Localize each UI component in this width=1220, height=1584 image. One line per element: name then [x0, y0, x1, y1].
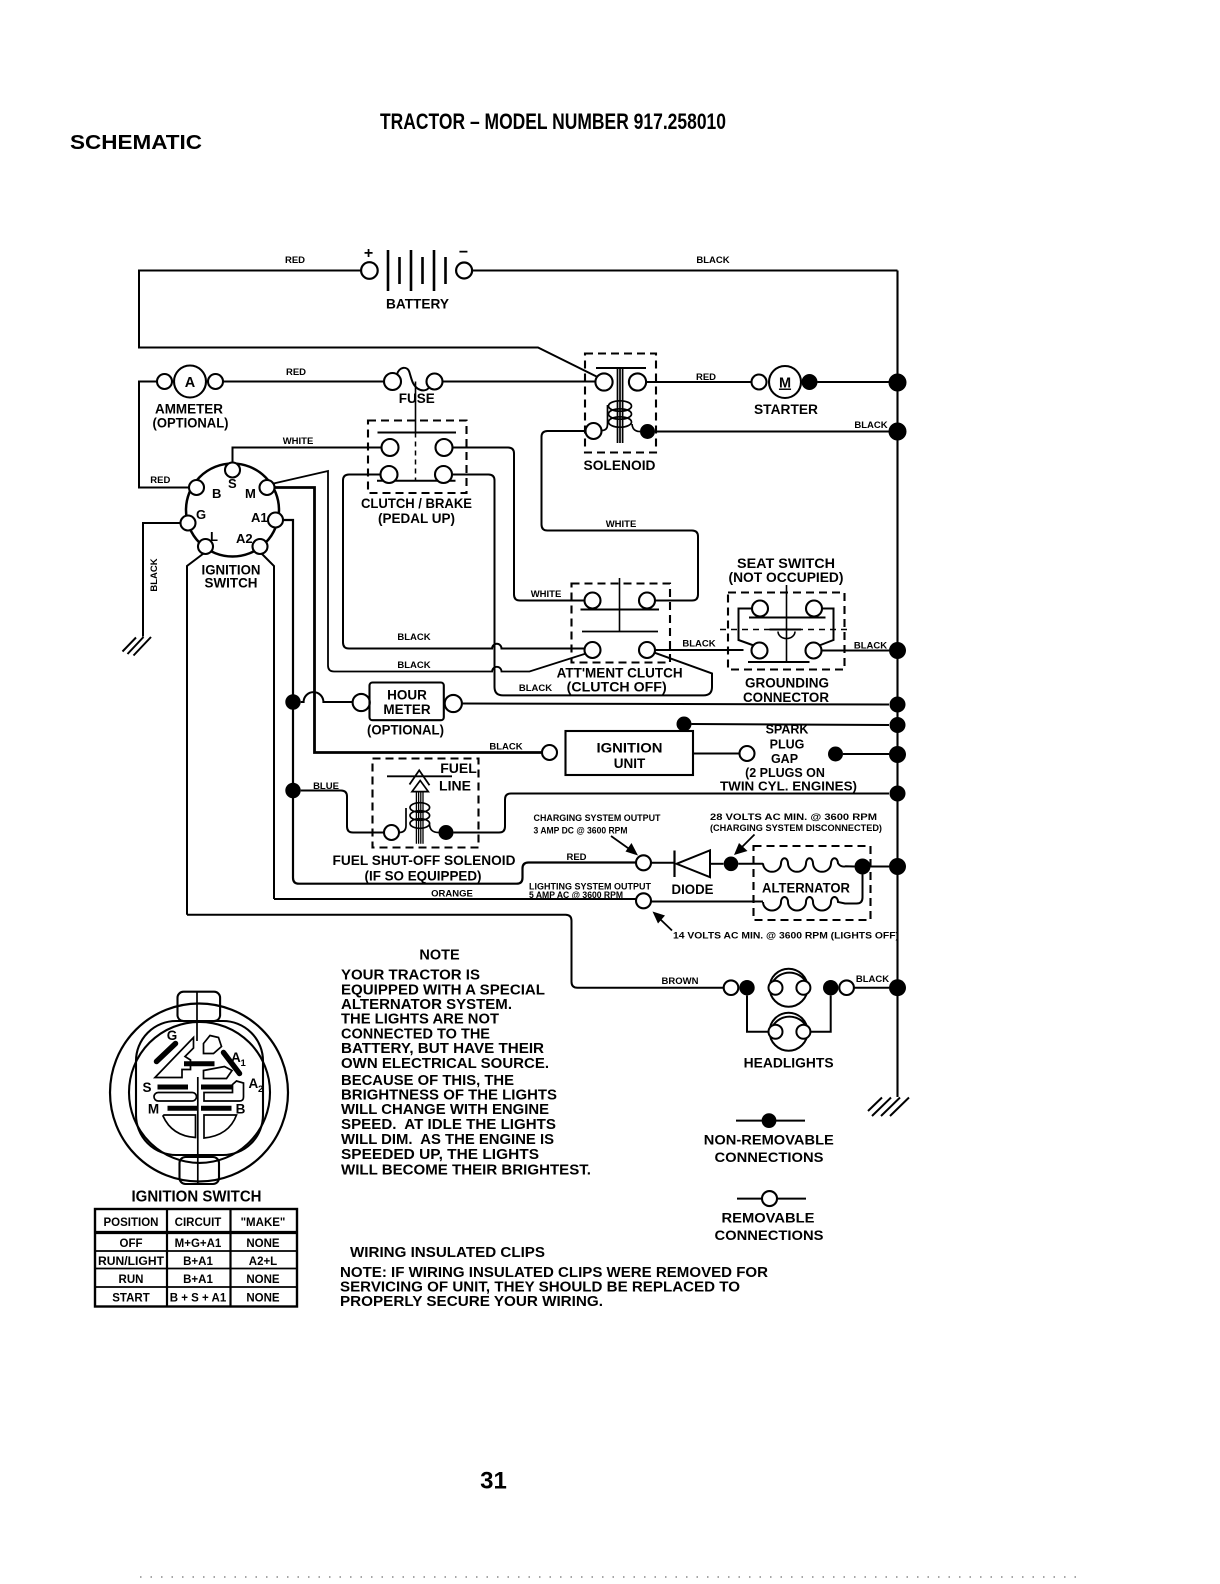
wire battery negative to right bus	[473, 270, 898, 272]
svg-text:M+G+A1: M+G+A1	[175, 1238, 222, 1250]
ignition switch label enclosure	[187, 554, 274, 915]
diode	[651, 850, 724, 897]
svg-text:(OPTIONAL): (OPTIONAL)	[153, 416, 229, 431]
legend non-removable connection	[736, 1120, 805, 1122]
svg-text:BLACK: BLACK	[856, 974, 889, 985]
svg-text:RED: RED	[696, 372, 716, 383]
svg-text:B + S + A1: B + S + A1	[170, 1293, 227, 1305]
svg-text:(NOT OCCUPIED): (NOT OCCUPIED)	[729, 570, 844, 585]
wire starter to bus	[818, 381, 890, 383]
svg-text:(CLUTCH OFF): (CLUTCH OFF)	[567, 679, 667, 695]
svg-text:WIRING INSULATED CLIPS: WIRING INSULATED CLIPS	[350, 1245, 545, 1261]
svg-text:RUN/LIGHT: RUN/LIGHT	[98, 1256, 164, 1268]
svg-text:HOUR: HOUR	[387, 688, 427, 703]
svg-text:RUN: RUN	[119, 1274, 144, 1286]
connector lighting output	[636, 893, 651, 908]
svg-text:DIODE: DIODE	[672, 882, 714, 897]
svg-text:CONNECTIONS: CONNECTIONS	[715, 1228, 824, 1243]
svg-text:ALTERNATOR: ALTERNATOR	[762, 881, 850, 896]
svg-text:IGNITION: IGNITION	[597, 741, 663, 756]
svg-text:WILL DIM. AS THE ENGINE IS: WILL DIM. AS THE ENGINE IS	[341, 1132, 554, 1148]
svg-text:(CHARGING SYSTEM DISCONNECTED): (CHARGING SYSTEM DISCONNECTED)	[710, 823, 882, 833]
svg-text:BLACK: BLACK	[854, 420, 887, 431]
svg-text:BATTERY: BATTERY	[386, 296, 450, 312]
junction starter-bus	[889, 374, 907, 392]
headlights connector right	[839, 980, 854, 995]
svg-text:A: A	[231, 1050, 241, 1065]
svg-text:L: L	[210, 529, 218, 544]
junction spark gap bus	[889, 746, 906, 763]
right bus vertical	[896, 271, 898, 1098]
svg-text:B: B	[236, 1102, 246, 1117]
hour meter (optional)	[353, 683, 462, 738]
seat switch (not occupied)	[720, 556, 852, 670]
svg-text:M: M	[779, 376, 791, 392]
headlight lamp 1	[769, 969, 811, 1007]
svg-text:OFF: OFF	[120, 1238, 143, 1250]
svg-text:PROPERLY SECURE YOUR WIRING.: PROPERLY SECURE YOUR WIRING.	[340, 1294, 603, 1310]
junction blue wire	[285, 783, 300, 798]
wire blue to fuel solenoid	[301, 791, 384, 833]
clutch brake switch (pedal up)	[361, 382, 472, 527]
svg-text:BLACK: BLACK	[149, 558, 160, 591]
wire M branch to attment clutch	[274, 471, 587, 672]
wire G to ground	[143, 523, 181, 637]
svg-text:NONE: NONE	[246, 1238, 280, 1250]
ignition unit top stub and dot	[683, 725, 685, 732]
svg-text:S: S	[228, 476, 237, 491]
svg-text:WHITE: WHITE	[283, 436, 314, 447]
svg-text:WILL CHANGE WITH ENGINE: WILL CHANGE WITH ENGINE	[341, 1102, 549, 1118]
fuse F1	[384, 368, 443, 406]
ignition switch body	[181, 463, 284, 557]
svg-text:POSITION: POSITION	[104, 1217, 159, 1229]
wire seat switch to bus	[822, 650, 890, 652]
wire L brown to headlights	[187, 915, 724, 988]
svg-text:SPEED. AT IDLE THE LIGHTS: SPEED. AT IDLE THE LIGHTS	[341, 1117, 556, 1133]
svg-text:RED: RED	[150, 475, 170, 486]
battery	[361, 244, 472, 312]
connector pin labels	[142, 1028, 245, 1117]
wire fuel solenoid output to bus	[454, 794, 890, 833]
svg-text:S: S	[142, 1080, 151, 1095]
svg-text:CHARGING SYSTEM OUTPUT: CHARGING SYSTEM OUTPUT	[534, 813, 661, 824]
svg-text:RED: RED	[285, 255, 305, 266]
wire S to clutch brake	[233, 448, 382, 463]
svg-text:B: B	[212, 486, 221, 501]
svg-text:START: START	[112, 1293, 149, 1305]
svg-text:BATTERY, BUT HAVE THEIR: BATTERY, BUT HAVE THEIR	[341, 1041, 545, 1057]
svg-text:ORANGE: ORANGE	[431, 889, 473, 900]
junction seat-bus	[889, 642, 906, 659]
wire lighting to alternator	[651, 901, 763, 903]
wire hour meter to bus	[462, 704, 889, 705]
svg-text:BLACK: BLACK	[696, 255, 729, 266]
svg-text:YOUR TRACTOR IS: YOUR TRACTOR IS	[341, 968, 480, 984]
wire diode to alternator	[738, 863, 763, 865]
bottom perforation dots	[140, 1576, 1085, 1578]
svg-text:BROWN: BROWN	[662, 976, 699, 987]
wire fuse to solenoid	[443, 381, 596, 383]
svg-text:SWITCH: SWITCH	[205, 576, 258, 591]
svg-text:TRACTOR – MODEL NUMBER 917.258: TRACTOR – MODEL NUMBER 917.258010	[380, 109, 726, 134]
headlight lamp 2	[747, 995, 831, 1050]
legend removable connection	[737, 1198, 806, 1200]
svg-text:NONE: NONE	[246, 1293, 280, 1305]
connector charging output	[636, 855, 651, 870]
svg-text:BLACK: BLACK	[397, 660, 430, 671]
svg-text:WILL BECOME THEIR BRIGHTEST.: WILL BECOME THEIR BRIGHTEST.	[341, 1163, 591, 1179]
label 28 volts	[710, 812, 882, 833]
svg-text:BLACK: BLACK	[397, 632, 430, 643]
wire solenoid to starter	[646, 381, 751, 383]
svg-text:A1: A1	[251, 510, 268, 525]
svg-text:B+A1: B+A1	[183, 1256, 213, 1268]
wire alternator to bus	[871, 865, 890, 867]
connector key bars	[157, 1044, 240, 1074]
wire battery positive to left rail down to solenoid diagonal	[139, 271, 598, 378]
junction solenoid-bus	[889, 423, 907, 441]
label spark plug gap	[720, 723, 857, 794]
svg-text:SOLENOID: SOLENOID	[584, 458, 656, 473]
svg-text:REMOVABLE: REMOVABLE	[722, 1211, 815, 1226]
wire ammeter to fuse	[223, 381, 384, 383]
svg-text:NON-REMOVABLE: NON-REMOVABLE	[704, 1133, 834, 1148]
svg-text:A2+L: A2+L	[249, 1256, 277, 1268]
svg-text:2: 2	[258, 1084, 263, 1095]
svg-text:PLUG: PLUG	[770, 738, 805, 752]
svg-text:3 AMP DC @ 3600 RPM: 3 AMP DC @ 3600 RPM	[534, 826, 628, 837]
table text	[98, 1217, 285, 1305]
wire clutch top-right to attment top-left	[453, 448, 585, 601]
svg-text:BLACK: BLACK	[682, 639, 715, 650]
svg-text:(IF SO EQUIPPED): (IF SO EQUIPPED)	[365, 868, 482, 884]
ignition switch table	[95, 1209, 297, 1307]
svg-text:B+A1: B+A1	[183, 1274, 213, 1286]
junction headlights bus	[889, 979, 906, 996]
svg-text:14 VOLTS AC MIN. @ 3600 RPM (L: 14 VOLTS AC MIN. @ 3600 RPM (LIGHTS OFF)	[673, 931, 899, 941]
headlights connector left	[724, 980, 739, 995]
label charging system output	[534, 813, 661, 837]
svg-text:CLUTCH / BRAKE: CLUTCH / BRAKE	[361, 496, 472, 511]
wire B from ammeter rail	[139, 382, 189, 488]
svg-text:METER: METER	[383, 702, 431, 717]
svg-text:G: G	[167, 1028, 178, 1043]
svg-text:FUSE: FUSE	[399, 391, 435, 406]
svg-text:"MAKE": "MAKE"	[241, 1217, 286, 1229]
svg-text:CONNECTIONS: CONNECTIONS	[715, 1150, 824, 1165]
svg-text:RED: RED	[286, 367, 306, 378]
junction hourmeter feed	[285, 694, 300, 709]
ground right	[868, 1098, 909, 1117]
junction fuel output bus	[890, 786, 906, 802]
svg-text:FUEL SHUT-OFF SOLENOID: FUEL SHUT-OFF SOLENOID	[333, 852, 516, 868]
svg-text:HEADLIGHTS: HEADLIGHTS	[744, 1056, 834, 1071]
svg-text:CONNECTOR: CONNECTOR	[743, 690, 829, 705]
svg-text:A2: A2	[236, 531, 253, 546]
wire clutch bottom-left to attment (black wire1)	[343, 475, 585, 649]
wire A1 down to charging output	[283, 520, 636, 884]
svg-text:BLACK: BLACK	[489, 742, 522, 753]
ammeter A1 (optional)	[153, 366, 229, 431]
junction headlights left	[739, 980, 754, 995]
wire M to ignition unit	[275, 488, 543, 753]
svg-text:STARTER: STARTER	[754, 402, 818, 417]
arrow 14 volts	[660, 919, 672, 931]
junction headlights right	[823, 980, 838, 995]
arrow charging	[611, 836, 630, 850]
svg-text:IGNITION SWITCH: IGNITION SWITCH	[132, 1189, 262, 1206]
svg-text:CIRCUIT: CIRCUIT	[175, 1217, 222, 1229]
svg-text:SEAT SWITCH: SEAT SWITCH	[737, 556, 835, 571]
svg-text:A: A	[185, 375, 196, 391]
svg-text:A: A	[249, 1076, 259, 1091]
svg-text:BLACK: BLACK	[854, 641, 887, 652]
junction spark top bus	[890, 717, 906, 733]
wire clutch bottom-right loop to attment bottom-right	[452, 475, 712, 696]
ground left	[123, 637, 152, 656]
svg-text:31: 31	[480, 1468, 507, 1495]
svg-text:LINE: LINE	[439, 778, 471, 794]
svg-text:SPEEDED UP, THE LIGHTS: SPEEDED UP, THE LIGHTS	[341, 1147, 539, 1163]
svg-text:WHITE: WHITE	[531, 589, 562, 600]
svg-text:SPARK: SPARK	[766, 723, 809, 737]
ignition unit	[542, 731, 693, 775]
junction hour meter bus	[890, 697, 906, 713]
svg-text:TWIN CYL. ENGINES): TWIN CYL. ENGINES)	[720, 780, 857, 794]
wire headlights to bus	[854, 987, 889, 989]
svg-text:5 AMP AC @ 3600 RPM: 5 AMP AC @ 3600 RPM	[529, 890, 623, 901]
svg-text:GAP: GAP	[771, 752, 798, 766]
label lighting system output	[529, 882, 651, 902]
alternator	[754, 846, 871, 920]
fuel shut-off solenoid	[333, 759, 516, 884]
wire spark top to bus	[692, 724, 890, 725]
svg-text:OWN ELECTRICAL SOURCE.: OWN ELECTRICAL SOURCE.	[341, 1056, 549, 1072]
svg-text:AMMETER: AMMETER	[155, 402, 223, 417]
svg-text:−: −	[459, 244, 468, 261]
svg-text:M: M	[148, 1102, 159, 1117]
svg-text:THE LIGHTS ARE NOT: THE LIGHTS ARE NOT	[341, 1012, 499, 1028]
svg-text:G: G	[196, 507, 206, 522]
solenoid	[584, 354, 657, 474]
starter M	[752, 366, 819, 417]
attment clutch switch (clutch off)	[557, 578, 683, 695]
junction diode output	[724, 857, 739, 872]
svg-text:28 VOLTS AC MIN. @ 3600 RPM: 28 VOLTS AC MIN. @ 3600 RPM	[710, 812, 877, 822]
svg-text:FUEL: FUEL	[440, 760, 477, 776]
svg-text:1: 1	[241, 1058, 247, 1069]
note paragraph	[341, 968, 591, 1179]
wiring note paragraph	[340, 1265, 769, 1310]
svg-text:M: M	[245, 486, 256, 501]
svg-text:BLACK: BLACK	[519, 683, 552, 694]
svg-text:+: +	[364, 245, 373, 262]
ignition switch connector figure	[110, 992, 288, 1184]
svg-text:NONE: NONE	[246, 1274, 280, 1286]
connector keyway outlines	[154, 1036, 244, 1139]
svg-text:WHITE: WHITE	[606, 519, 637, 530]
spark plug gap	[693, 746, 889, 762]
wire solenoid coil output to bus	[655, 431, 889, 433]
junction alternator	[855, 859, 871, 875]
svg-text:(2 PLUGS ON: (2 PLUGS ON	[745, 766, 825, 780]
svg-text:(PEDAL UP): (PEDAL UP)	[378, 511, 455, 526]
wire hour meter feed with hop	[301, 692, 353, 702]
svg-text:RED: RED	[566, 852, 586, 863]
svg-text:(OPTIONAL): (OPTIONAL)	[367, 723, 444, 738]
arrow 28 volts	[742, 835, 755, 848]
wire A2 orange to lighting output	[274, 898, 636, 900]
svg-text:UNIT: UNIT	[614, 756, 646, 771]
svg-text:GROUNDING: GROUNDING	[745, 676, 829, 691]
wire solenoid to attment top-right (white)	[542, 431, 699, 601]
junction alternator bus	[889, 858, 906, 875]
wire attment to seat switch	[655, 649, 744, 651]
svg-text:SCHEMATIC: SCHEMATIC	[70, 132, 202, 154]
svg-text:NOTE: NOTE	[419, 948, 460, 964]
